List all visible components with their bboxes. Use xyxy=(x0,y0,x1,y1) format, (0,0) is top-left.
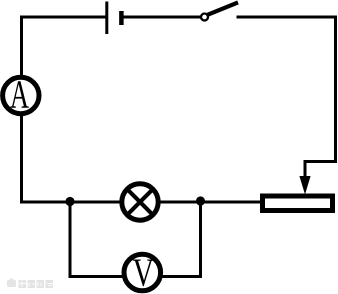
node junction left xyxy=(65,197,74,206)
voltmeter parallel branch wires xyxy=(70,202,201,277)
ammeter label A xyxy=(10,81,29,107)
rheostat R body xyxy=(263,196,333,211)
battery cell short thick plate (negative) xyxy=(119,11,124,25)
voltmeter label V xyxy=(133,260,154,287)
wire: switch to top-right corner, down right side, elbow to slider arm xyxy=(237,17,336,179)
watermark text xyxy=(19,280,54,288)
wire: top-left horizontal from battery to left corner, down left side to ammeter xyxy=(22,17,106,80)
voltmeter V circle xyxy=(124,254,161,291)
lamp L circle xyxy=(122,184,158,220)
node junction right xyxy=(196,196,205,205)
wire: battery to switch pivot xyxy=(124,16,201,19)
ammeter A circle xyxy=(3,77,39,113)
watermark logo xyxy=(7,279,16,288)
battery cell long plate (positive) xyxy=(105,2,108,35)
switch S pivot circle xyxy=(201,14,208,21)
rheostat slider arrowhead xyxy=(299,176,310,195)
switch blade (open) xyxy=(208,2,239,14)
wire: left side below ammeter down to bottom-left corner and bottom main run to rheostat xyxy=(22,110,263,202)
lamp X cross xyxy=(129,191,152,214)
